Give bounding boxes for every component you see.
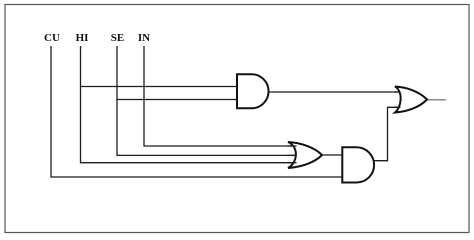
svg-text:HI: HI: [76, 32, 89, 44]
svg-text:CU: CU: [44, 32, 60, 44]
svg-text:SE: SE: [111, 32, 124, 44]
svg-text:IN: IN: [138, 32, 150, 44]
